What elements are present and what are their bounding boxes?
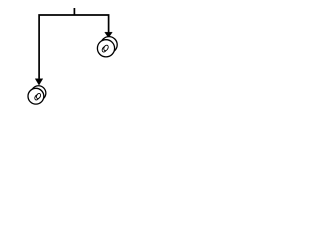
torus: right upper disc (back rim circle) (97, 37, 117, 57)
torus: right disc hub hole (103, 44, 109, 51)
torus: right upper disc (front face circle) (97, 40, 114, 57)
arrowhead: left arrow pointing down (35, 79, 43, 85)
torus: left disc hub hole inner wall (34, 94, 40, 101)
arrowhead: right arrow pointing down (105, 32, 113, 38)
torus: right disc hub hole inner wall (101, 46, 107, 53)
torus: left lower disc (back rim circle) (28, 86, 46, 104)
node tick: small stub above top bar center (73, 8, 75, 15)
torus: left lower disc (front face circle) (28, 88, 44, 104)
wire: top horizontal bar with left and right vertical drops (39, 15, 109, 79)
torus: left disc hub hole (36, 93, 42, 100)
